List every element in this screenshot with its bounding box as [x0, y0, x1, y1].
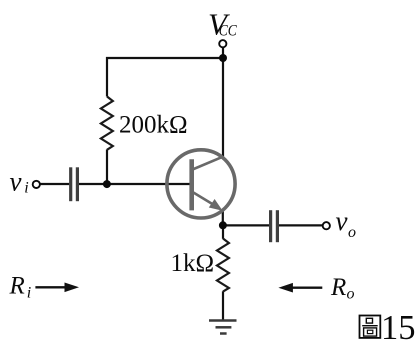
svg-text:o: o: [347, 286, 355, 303]
svg-text:v: v: [336, 206, 348, 236]
svg-text:v: v: [10, 166, 22, 196]
svg-text:15: 15: [381, 309, 416, 347]
svg-text:i: i: [27, 285, 31, 302]
svg-text:o: o: [348, 224, 356, 241]
svg-text:R: R: [9, 273, 25, 300]
svg-text:i: i: [24, 179, 28, 196]
svg-text:CC: CC: [219, 22, 237, 39]
svg-text:1kΩ: 1kΩ: [171, 250, 215, 277]
svg-text:R: R: [330, 274, 346, 301]
svg-text:200kΩ: 200kΩ: [119, 111, 188, 138]
